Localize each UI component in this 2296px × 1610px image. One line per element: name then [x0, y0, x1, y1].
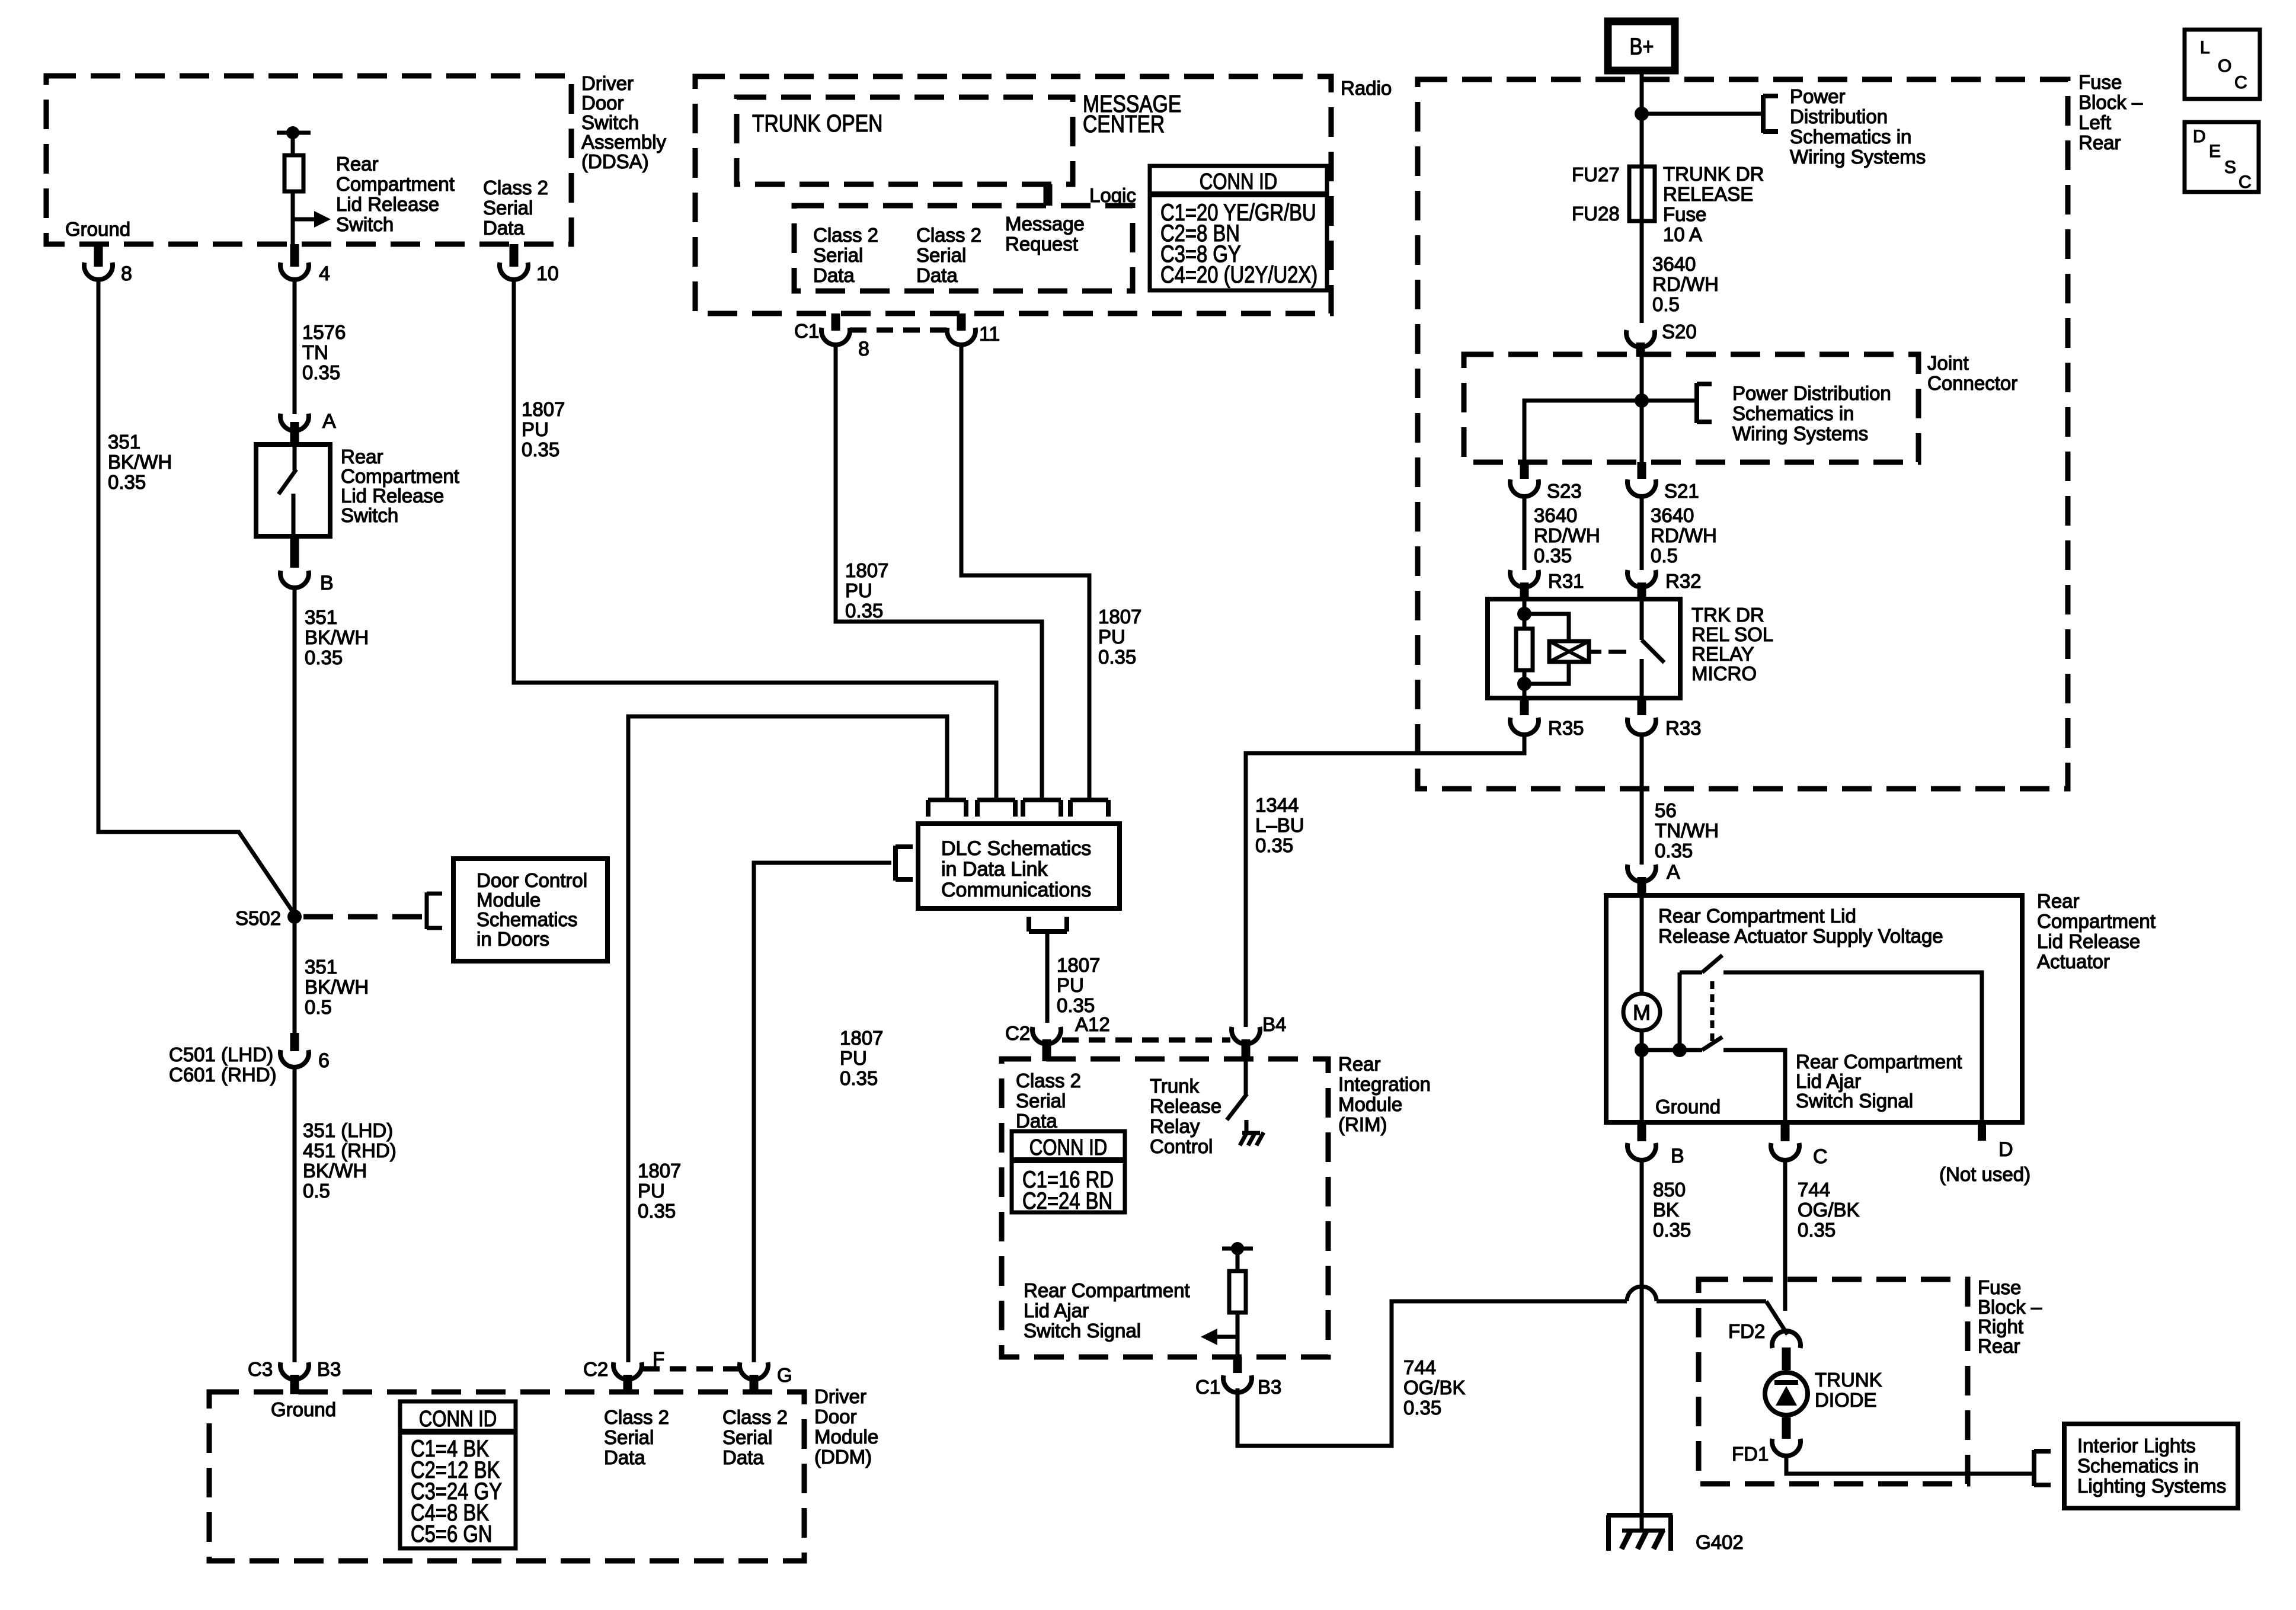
label wire 3640 RD/WH 0.5 (fuse) — [1652, 253, 1719, 315]
label Rear Compartment Lid Release Actuator Supply Voltage — [1658, 905, 1943, 947]
svg-text:Rear Compartment: Rear Compartment — [1796, 1051, 1962, 1073]
wire 744 OG/BK RIM B3 to fuse block — [1237, 1286, 1787, 1446]
label 1807 PU 0.35 (DDM F wire) — [638, 1160, 681, 1222]
svg-text:OG/BK: OG/BK — [1798, 1199, 1860, 1221]
svg-text:RD/WH: RD/WH — [1652, 273, 1719, 295]
svg-text:FU27: FU27 — [1572, 164, 1620, 185]
svg-text:(DDSA): (DDSA) — [581, 151, 649, 172]
wire 351 BK/WH from pin B to S502 — [293, 585, 297, 917]
svg-text:Lid Release: Lid Release — [2037, 930, 2140, 952]
svg-text:Wiring Systems: Wiring Systems — [1790, 146, 1926, 168]
wire dashed link S502 to Door Control Module — [303, 914, 424, 920]
wire to power distribution bracket — [1642, 112, 1761, 116]
bracket to Door Control Module Schematics — [427, 892, 442, 929]
relay TRK DR REL SOL RELAY MICRO — [1488, 599, 1680, 698]
svg-text:Assembly: Assembly — [581, 131, 667, 153]
label wire 744 OG/BK 0.35 (pin C) — [1798, 1179, 1860, 1241]
svg-text:C3: C3 — [248, 1358, 273, 1380]
svg-text:B4: B4 — [1262, 1013, 1286, 1035]
connector S21 — [1627, 462, 1699, 502]
wire 744 OG/BK pin C down — [1783, 1159, 1787, 1311]
label 1807 PU 0.35 (pin 10 wire) — [522, 398, 565, 460]
svg-text:REL SOL: REL SOL — [1691, 623, 1773, 645]
svg-text:10: 10 — [536, 263, 559, 285]
svg-text:G402: G402 — [1696, 1531, 1744, 1553]
svg-text:Serial: Serial — [1016, 1090, 1066, 1112]
module box Joint Connector — [1464, 354, 1918, 462]
label Fuse Block - Right Rear — [1978, 1276, 2042, 1357]
svg-text:Data: Data — [916, 264, 958, 286]
svg-text:TRUNK DR: TRUNK DR — [1663, 163, 1764, 185]
svg-text:Module: Module — [477, 889, 541, 911]
module box Driver Door Switch Assembly (DDSA) — [46, 76, 571, 244]
wire 351 BK/WH from pin 8 to S502 — [98, 279, 295, 914]
svg-text:A12: A12 — [1075, 1013, 1110, 1035]
svg-text:C2: C2 — [583, 1358, 608, 1380]
svg-text:Relay: Relay — [1150, 1115, 1200, 1137]
connector pin C1 8 of Radio — [794, 313, 869, 360]
connector pin A of actuator — [1627, 861, 1680, 898]
label 3640 RD/WH 0.35 — [1534, 504, 1600, 566]
label Driver Door Module (DDM) — [814, 1385, 878, 1468]
connector FD1 — [1732, 1417, 1801, 1465]
connector pin R35 of relay — [1510, 698, 1584, 739]
connector pin C2/A12 of RIM — [1005, 1013, 1110, 1061]
mechanical link dashed — [1710, 981, 1715, 1044]
svg-text:Control: Control — [1150, 1135, 1213, 1157]
node B+ junction — [1635, 107, 1649, 121]
node S20 splice — [1626, 321, 1697, 357]
wire 3640 RD/WH 0.5 S21 to R32 — [1640, 495, 1644, 570]
svg-text:C1: C1 — [1195, 1376, 1220, 1398]
connector pin G of DDM — [740, 1362, 792, 1394]
svg-text:B3: B3 — [317, 1358, 341, 1380]
label Message Request — [1005, 213, 1085, 255]
wire junction to S23 branch — [1524, 401, 1642, 463]
wire 351 BK/WH 0.5 from S502 to C501 — [293, 917, 297, 1033]
svg-text:Serial: Serial — [483, 197, 533, 219]
svg-text:C1: C1 — [794, 320, 819, 342]
svg-text:DIODE: DIODE — [1815, 1389, 1877, 1411]
svg-text:B: B — [320, 572, 334, 594]
label 1807 PU 0.35 (RIM C2 wire) — [1057, 954, 1100, 1016]
wire upper contact to pin D — [1723, 972, 1982, 1122]
svg-text:Release Actuator Supply Voltag: Release Actuator Supply Voltage — [1658, 925, 1943, 947]
wire dashed link A12 to B4 — [1062, 1038, 1230, 1043]
label Rear Compartment Lid Release Switch (upper) — [336, 153, 455, 235]
wire 1344 L-BU R35 to RIM B4 — [1246, 734, 1524, 1027]
label Trunk Release Relay Control — [1150, 1075, 1221, 1157]
svg-text:Right: Right — [1978, 1315, 2023, 1337]
label Rear Compartment Lid Release Actuator — [2037, 890, 2156, 972]
svg-text:Integration: Integration — [1338, 1073, 1431, 1095]
svg-text:in Data Link: in Data Link — [941, 858, 1048, 881]
label wire 351 BK/WH 0.35 (middle) — [305, 606, 369, 668]
connector pin 11 of Radio — [947, 313, 1000, 345]
module box Rear Compartment Lid Release Actuator — [1606, 895, 2022, 1122]
svg-text:Rear Compartment Lid: Rear Compartment Lid — [1658, 905, 1856, 927]
svg-text:Logic: Logic — [1089, 184, 1136, 206]
connector pin B of actuator — [1627, 1122, 1684, 1167]
svg-text:Joint: Joint — [1927, 352, 1969, 374]
svg-text:L–BU: L–BU — [1255, 814, 1304, 836]
svg-text:OG/BK: OG/BK — [1403, 1377, 1466, 1398]
svg-text:Switch Signal: Switch Signal — [1024, 1320, 1141, 1342]
node switch common junction — [1673, 1043, 1687, 1057]
connector pin B4 of RIM — [1232, 1013, 1286, 1061]
svg-text:M: M — [1633, 1000, 1651, 1025]
svg-text:BK/WH: BK/WH — [108, 451, 172, 473]
svg-text:Class 2: Class 2 — [722, 1406, 788, 1428]
svg-text:0.5: 0.5 — [305, 996, 332, 1018]
svg-text:8: 8 — [858, 338, 869, 360]
DLC top terminal 4 — [1070, 800, 1108, 817]
svg-text:0.35: 0.35 — [1534, 545, 1572, 566]
label Class 2 Serial Data (DDM pin G) — [722, 1406, 788, 1468]
svg-text:451 (RHD): 451 (RHD) — [303, 1140, 396, 1161]
svg-text:Message: Message — [1005, 213, 1085, 235]
reference box Door Control Module Schematics in Doors — [453, 859, 607, 961]
svg-text:0.35: 0.35 — [1255, 834, 1293, 856]
connector S23 — [1510, 462, 1582, 502]
svg-text:Compartment: Compartment — [341, 465, 459, 487]
svg-text:Block –: Block – — [1978, 1296, 2042, 1318]
svg-text:Data: Data — [1016, 1110, 1057, 1132]
bracket power distribution (joint connector) — [1697, 383, 1712, 423]
label wire 56 TN/WH 0.35 — [1655, 799, 1719, 862]
svg-text:CENTER: CENTER — [1083, 110, 1165, 137]
svg-text:Class 2: Class 2 — [483, 177, 548, 199]
label 3640 RD/WH 0.5 — [1651, 504, 1717, 566]
relay switch contact — [1642, 599, 1664, 698]
svg-text:0.35: 0.35 — [1653, 1219, 1691, 1241]
svg-text:Data: Data — [813, 264, 855, 286]
wire 3640 RD/WH 0.35 S23 to R31 — [1523, 495, 1527, 570]
svg-text:A: A — [322, 410, 336, 433]
wire 1807 PU DDM pin G to DLC bracket — [754, 863, 891, 1362]
svg-text:Fuse: Fuse — [1978, 1276, 2021, 1298]
ground G402 — [1607, 1515, 1744, 1553]
svg-text:11: 11 — [979, 323, 1000, 345]
module box Fuse Block - Left Rear — [1418, 79, 2068, 789]
svg-text:Lid Release: Lid Release — [341, 485, 444, 507]
svg-text:Class 2: Class 2 — [1016, 1070, 1081, 1092]
svg-text:Lid Ajar: Lid Ajar — [1796, 1070, 1861, 1092]
connector pin C2/F of DDM — [583, 1348, 664, 1394]
fuse FU27/FU28 TRUNK DR RELEASE — [1572, 164, 1655, 225]
label Class 2 Serial Data (radio pin 8) — [813, 224, 878, 286]
svg-text:Interior Lights: Interior Lights — [2077, 1435, 2196, 1457]
wire 1807 PU DLC to RIM C2 — [1045, 932, 1050, 1023]
svg-text:Compartment: Compartment — [336, 173, 455, 195]
svg-text:Wiring Systems: Wiring Systems — [1732, 422, 1868, 444]
svg-text:L: L — [2200, 38, 2210, 57]
svg-text:1807: 1807 — [845, 559, 888, 581]
svg-text:1576: 1576 — [302, 321, 346, 343]
wire S20 into joint connector — [1640, 354, 1644, 401]
label TRK DR REL SOL RELAY MICRO — [1691, 604, 1773, 684]
label Class 2 Serial Data (DDM pin F) — [604, 1406, 669, 1468]
legend box LOC — [2185, 30, 2260, 99]
label wire 1344 L-BU 0.35 — [1255, 794, 1304, 856]
svg-text:Data: Data — [722, 1446, 764, 1468]
svg-text:Schematics in: Schematics in — [1790, 126, 1911, 148]
svg-text:FD2: FD2 — [1728, 1320, 1765, 1342]
svg-text:Ground: Ground — [271, 1398, 336, 1420]
DLC left bracket terminal — [896, 846, 913, 881]
svg-text:Power Distribution: Power Distribution — [1732, 382, 1891, 404]
svg-text:Door: Door — [814, 1406, 857, 1427]
svg-text:TN: TN — [302, 341, 328, 363]
svg-text:G: G — [777, 1364, 792, 1386]
label Class 2 Serial Data (DDSA) — [483, 177, 548, 239]
svg-text:RELAY: RELAY — [1691, 643, 1754, 665]
label 1807 PU 0.35 (radio pin 11 wire) — [1098, 606, 1141, 668]
ground symbol in RIM — [1240, 1132, 1264, 1145]
arrow switch actuation — [293, 211, 331, 228]
svg-text:0.5: 0.5 — [1652, 293, 1680, 315]
svg-text:0.35: 0.35 — [305, 646, 343, 668]
svg-text:BK/WH: BK/WH — [305, 626, 369, 648]
svg-text:FD1: FD1 — [1732, 1443, 1769, 1465]
svg-text:Connector: Connector — [1927, 372, 2017, 394]
svg-text:Switch: Switch — [341, 504, 398, 526]
resistor in DDSA switch — [277, 126, 311, 244]
svg-text:1807: 1807 — [522, 398, 565, 420]
svg-text:Fuse: Fuse — [1663, 203, 1706, 225]
module box Fuse Block - Right Rear — [1699, 1279, 1968, 1484]
svg-text:C: C — [2234, 73, 2247, 92]
svg-text:DLC Schematics: DLC Schematics — [941, 837, 1091, 860]
svg-text:1807: 1807 — [1057, 954, 1100, 976]
svg-text:TRUNK OPEN: TRUNK OPEN — [752, 110, 882, 137]
diode TRUNK DIODE — [1765, 1372, 1808, 1415]
svg-text:744: 744 — [1798, 1179, 1830, 1201]
resistor rear compartment lid ajar in RIM — [1222, 1242, 1253, 1362]
node joint connector junction — [1635, 393, 1649, 408]
svg-text:C: C — [2239, 172, 2252, 192]
svg-text:0.35: 0.35 — [522, 438, 559, 460]
svg-text:1344: 1344 — [1255, 794, 1299, 816]
svg-text:Switch Signal: Switch Signal — [1796, 1090, 1913, 1112]
power symbol B+ — [1608, 21, 1675, 71]
svg-text:Serial: Serial — [813, 244, 863, 266]
svg-text:(DDM): (DDM) — [814, 1446, 872, 1468]
svg-text:850: 850 — [1653, 1179, 1686, 1201]
switch Rear Compartment Lid Release Switch — [256, 444, 330, 536]
svg-text:Door: Door — [581, 92, 624, 114]
svg-text:BK/WH: BK/WH — [303, 1160, 367, 1182]
reference box Interior Lights Schematics in Lighting Systems — [2064, 1424, 2238, 1508]
label MESSAGE CENTER — [1083, 90, 1181, 137]
svg-text:C501 (LHD): C501 (LHD) — [169, 1044, 273, 1065]
node actuator ground junction — [1635, 1043, 1649, 1057]
svg-text:C: C — [1813, 1145, 1828, 1168]
svg-text:O: O — [2218, 56, 2231, 76]
svg-text:1807: 1807 — [638, 1160, 681, 1182]
svg-text:BK: BK — [1653, 1199, 1679, 1221]
wire 56 TN/WH R33 to actuator A — [1640, 734, 1644, 865]
svg-text:Release: Release — [1150, 1095, 1221, 1117]
svg-text:0.35: 0.35 — [302, 361, 340, 383]
DDM CONN ID table — [400, 1401, 516, 1548]
svg-text:RD/WH: RD/WH — [1534, 524, 1600, 546]
connector pin B of lid release switch — [280, 536, 334, 594]
svg-text:0.35: 0.35 — [845, 600, 883, 622]
wire junction to switch common — [1642, 1048, 1680, 1052]
label TRUNK DIODE — [1815, 1369, 1882, 1411]
label Power Distribution Schematics in Wiring Systems (joint) — [1732, 382, 1891, 444]
module box Rear Integration Module (RIM) — [1002, 1059, 1328, 1357]
label Power Distribution Schematics in Wiring Systems (top) — [1790, 85, 1926, 168]
svg-text:0.35: 0.35 — [108, 471, 146, 493]
svg-text:Driver: Driver — [581, 72, 634, 94]
svg-text:RD/WH: RD/WH — [1651, 524, 1717, 546]
wire 1807 PU radio pin 11 to DLC — [961, 344, 1089, 801]
svg-text:Driver: Driver — [814, 1385, 866, 1407]
svg-text:FU28: FU28 — [1572, 203, 1620, 225]
label Rear Compartment Lid Ajar Switch Signal (RIM) — [1024, 1279, 1190, 1342]
label wire 351 (LHD) 451 (RHD) BK/WH 0.5 — [303, 1119, 396, 1202]
svg-text:B+: B+ — [1629, 33, 1654, 60]
svg-text:C2=24 BN: C2=24 BN — [1022, 1188, 1112, 1214]
DLC bottom terminal — [1029, 917, 1067, 932]
svg-text:Ground: Ground — [65, 218, 130, 240]
svg-text:TRUNK: TRUNK — [1815, 1369, 1882, 1391]
svg-text:BK/WH: BK/WH — [305, 976, 369, 998]
svg-text:R32: R32 — [1665, 570, 1702, 592]
svg-text:C601 (RHD): C601 (RHD) — [169, 1064, 277, 1086]
connector pin R31 of relay — [1510, 570, 1584, 600]
label Rear Compartment Lid Ajar Switch Signal (actuator) — [1796, 1051, 1962, 1112]
svg-text:56: 56 — [1655, 799, 1677, 821]
svg-text:S502: S502 — [235, 907, 281, 929]
svg-text:Rear: Rear — [1338, 1053, 1381, 1075]
reference box DLC Schematics in Data Link Communications — [918, 824, 1120, 908]
DLC top terminal 2 — [977, 800, 1015, 817]
svg-text:Compartment: Compartment — [2037, 910, 2156, 932]
svg-text:PU: PU — [845, 580, 872, 601]
svg-text:Rear: Rear — [341, 446, 383, 468]
svg-text:0.5: 0.5 — [303, 1180, 330, 1202]
relay solenoid winding — [1524, 614, 1601, 684]
svg-text:PU: PU — [1057, 974, 1084, 996]
module box Radio — [695, 76, 1331, 313]
label Rear Compartment Lid Release Switch (lower) — [341, 446, 459, 526]
switch trunk release relay control in RIM — [1227, 1061, 1247, 1132]
svg-text:CONN ID: CONN ID — [1029, 1135, 1108, 1160]
svg-text:in Doors: in Doors — [477, 928, 549, 950]
svg-text:351: 351 — [305, 956, 337, 978]
module box Driver Door Module (DDM) — [209, 1392, 804, 1561]
wire 1576 TN from pin 4 to pin A — [293, 279, 297, 414]
connector FD2 — [1728, 1320, 1801, 1370]
wire FD1 to interior lights — [1786, 1454, 2032, 1474]
svg-text:A: A — [1667, 861, 1680, 884]
connector pin C1/B3 of RIM — [1195, 1357, 1281, 1398]
svg-text:S: S — [2224, 158, 2236, 177]
svg-text:R35: R35 — [1548, 717, 1584, 739]
label Fuse Block - Left Rear — [2078, 71, 2143, 153]
svg-text:Switch: Switch — [336, 213, 394, 235]
connector pin R33 of relay — [1627, 698, 1702, 739]
svg-text:R33: R33 — [1665, 717, 1702, 739]
label DDSA name — [581, 72, 667, 172]
svg-text:Module: Module — [1338, 1093, 1402, 1115]
label wire 351 BK/WH 0.5 — [305, 956, 369, 1018]
svg-text:0.35: 0.35 — [638, 1200, 676, 1222]
svg-text:0.35: 0.35 — [1403, 1397, 1441, 1419]
DLC top terminal 1 — [928, 800, 966, 817]
svg-text:R31: R31 — [1548, 570, 1584, 592]
svg-text:Request: Request — [1005, 233, 1078, 255]
logic box in Radio — [794, 184, 1136, 291]
svg-text:TN/WH: TN/WH — [1655, 820, 1719, 841]
label wire 1576 TN 0.35 — [302, 321, 346, 383]
wire 1807 PU DLC to DDM pin F — [628, 716, 947, 1362]
svg-text:3640: 3640 — [1652, 253, 1696, 275]
connector pin 8 of DDSA — [84, 244, 132, 285]
label TRUNK DR RELEASE Fuse 10 A — [1663, 163, 1764, 245]
svg-text:Module: Module — [814, 1426, 878, 1448]
svg-text:3640: 3640 — [1651, 504, 1694, 526]
svg-text:0.35: 0.35 — [1798, 1219, 1835, 1241]
connector pin D of actuator (not used) — [1939, 1122, 2030, 1185]
label 1807 PU 0.35 (radio pin 8 wire) — [845, 559, 888, 622]
connector pin C3/B3 of DDM — [248, 1358, 341, 1394]
svg-text:744: 744 — [1403, 1356, 1436, 1378]
svg-text:Data: Data — [483, 217, 525, 239]
svg-text:Schematics in: Schematics in — [2077, 1455, 2199, 1477]
bracket interior lights — [2034, 1450, 2051, 1486]
bracket power distribution (fuse block) — [1763, 95, 1778, 133]
svg-text:S23: S23 — [1547, 480, 1582, 502]
svg-text:3640: 3640 — [1534, 504, 1577, 526]
wire B+ feed — [1640, 71, 1644, 323]
svg-text:4: 4 — [319, 263, 330, 285]
svg-text:Rear: Rear — [1978, 1335, 2020, 1357]
svg-text:10 A: 10 A — [1663, 223, 1702, 245]
svg-text:Lid Release: Lid Release — [336, 193, 439, 215]
svg-text:Schematics in: Schematics in — [1732, 402, 1854, 424]
RIM CONN ID table — [1012, 1131, 1125, 1214]
svg-text:Radio: Radio — [1341, 77, 1392, 99]
display box TRUNK OPEN — [737, 97, 1073, 184]
svg-text:B3: B3 — [1258, 1376, 1281, 1398]
label Rear Integration Module (RIM) — [1338, 1053, 1431, 1135]
svg-text:S21: S21 — [1664, 480, 1699, 502]
svg-text:Lighting Systems: Lighting Systems — [2077, 1475, 2226, 1497]
svg-text:(RIM): (RIM) — [1338, 1113, 1387, 1135]
svg-text:D: D — [2193, 127, 2206, 146]
wire 1807 PU radio pin 8 to DLC — [836, 344, 1042, 801]
svg-text:MICRO: MICRO — [1691, 662, 1757, 684]
connector pin R32 of relay — [1627, 570, 1702, 600]
svg-text:Rear Compartment: Rear Compartment — [1024, 1279, 1190, 1301]
svg-text:RELEASE: RELEASE — [1663, 183, 1753, 205]
svg-text:PU: PU — [638, 1180, 665, 1202]
svg-text:0.35: 0.35 — [1655, 840, 1693, 862]
svg-text:1807: 1807 — [1098, 606, 1141, 628]
wire 850 BK pin B to G402 — [1640, 1159, 1644, 1531]
svg-text:351 (LHD): 351 (LHD) — [303, 1119, 393, 1141]
svg-text:Door Control: Door Control — [477, 869, 587, 891]
svg-text:Class 2: Class 2 — [916, 224, 981, 246]
svg-text:Distribution: Distribution — [1790, 105, 1888, 127]
connector pin 4 of DDSA — [280, 244, 330, 285]
svg-text:S20: S20 — [1662, 321, 1697, 343]
svg-text:Lid Ajar: Lid Ajar — [1024, 1299, 1089, 1321]
